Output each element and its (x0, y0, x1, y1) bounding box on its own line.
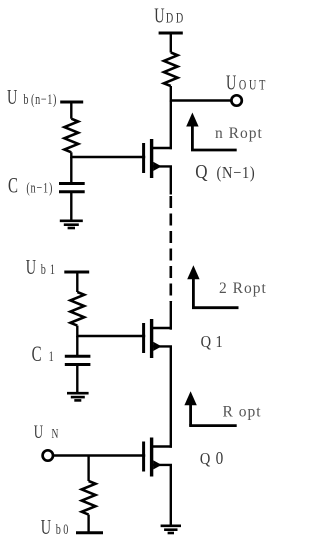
svg-text:b1: b1 (41, 261, 59, 277)
label U_b0 (41, 515, 71, 538)
svg-text:U: U (34, 422, 44, 443)
svg-text:U: U (7, 85, 17, 108)
label U_b(n-1) (7, 85, 57, 108)
svg-text:0: 0 (216, 448, 224, 468)
svg-text:Q: Q (201, 333, 212, 351)
resistor RD (drain resistor) (164, 53, 178, 87)
wire resistor to node (76, 326, 78, 338)
svg-text:n Ropt: n Ropt (215, 125, 263, 142)
input terminal circle U_N (43, 450, 53, 460)
wire node to gate of Q1 (77, 335, 145, 337)
wire resistor to node (70, 152, 72, 158)
wire Q1 drain corner (170, 328, 172, 330)
wire capacitor to ground (70, 192, 72, 221)
power rail bar U_b0 (76, 531, 103, 534)
svg-text:1: 1 (215, 333, 222, 351)
current arrow n Ropt (186, 113, 237, 151)
svg-text:(n−1): (n−1) (26, 180, 53, 196)
svg-text:(n−1): (n−1) (31, 91, 57, 107)
wire Q(N-1) source down to dashed (170, 166, 172, 194)
ground (source of Q0) (161, 526, 181, 533)
label U_N (34, 422, 59, 443)
wire node to gate of Q(N-1) (71, 156, 145, 158)
svg-text:U: U (41, 515, 51, 538)
svg-text:U: U (154, 4, 164, 27)
label Q 0 (200, 448, 223, 468)
wire Q1 source to Q0 drain (170, 346, 172, 447)
wire resistor R0 to bar (87, 515, 89, 533)
wire output node to Q(N-1) drain (170, 101, 172, 150)
wire node to capacitor C1 (76, 336, 78, 356)
svg-text:R opt: R opt (223, 404, 262, 421)
label U_b1 (26, 255, 59, 278)
power rail bar U_b1 (64, 271, 89, 274)
transistor Q1 (144, 319, 172, 358)
svg-text:N: N (51, 425, 58, 441)
label C (n-1) (8, 174, 53, 199)
current arrow 2 Ropt (187, 265, 238, 307)
label U_OUT (226, 71, 268, 94)
wire capacitor C1 to ground (76, 365, 78, 394)
label Q (N-1) (195, 161, 255, 184)
power rail bar U_b(n-1) (60, 101, 83, 104)
transistor Q(N-1) (144, 139, 172, 178)
label C 1 (32, 342, 54, 367)
resistor R0 (82, 481, 96, 515)
svg-text:b: b (23, 91, 28, 107)
svg-text:Q: Q (195, 161, 208, 184)
wire input to gate of Q0 (53, 454, 145, 456)
node output junction (171, 99, 231, 101)
capacitor C(n-1) (59, 184, 85, 192)
wire node to capacitor C(n-1) (70, 157, 72, 184)
svg-text:Q: Q (200, 450, 211, 468)
svg-text:b0: b0 (56, 521, 71, 537)
svg-text:1: 1 (49, 348, 54, 364)
svg-text:U: U (226, 71, 236, 94)
dashed wire (omitted stages) (170, 196, 173, 302)
wire dashed to Q1 drain (170, 302, 172, 329)
label Q 1 (201, 333, 223, 351)
svg-text:C: C (8, 174, 18, 199)
wire UDD bar to resistor (170, 33, 172, 53)
resistor R(n-1) (64, 119, 78, 153)
svg-text:(N−1): (N−1) (217, 164, 256, 182)
ground (stage 1) (67, 393, 89, 400)
svg-text:2 Ropt: 2 Ropt (219, 280, 267, 297)
power rail bar U_DD (159, 32, 183, 35)
output terminal circle U_OUT (231, 95, 241, 105)
wire bar to resistor R1 (76, 272, 78, 292)
wire bar to resistor R(n-1) (70, 102, 72, 119)
ground (stage n-1) (60, 221, 83, 228)
resistor R1 (70, 292, 84, 326)
label U_DD (154, 4, 186, 27)
svg-text:U: U (26, 255, 36, 278)
current arrow Ropt (184, 391, 236, 425)
wire Q0 source to ground (170, 465, 172, 526)
svg-text:DD: DD (166, 10, 186, 26)
wire resistor to output node (170, 86, 172, 102)
transistor Q0 (144, 438, 172, 477)
svg-text:OUT: OUT (239, 76, 268, 92)
svg-text:C: C (32, 342, 42, 367)
wire node to resistor R0 (87, 456, 89, 482)
capacitor C1 (65, 356, 91, 364)
